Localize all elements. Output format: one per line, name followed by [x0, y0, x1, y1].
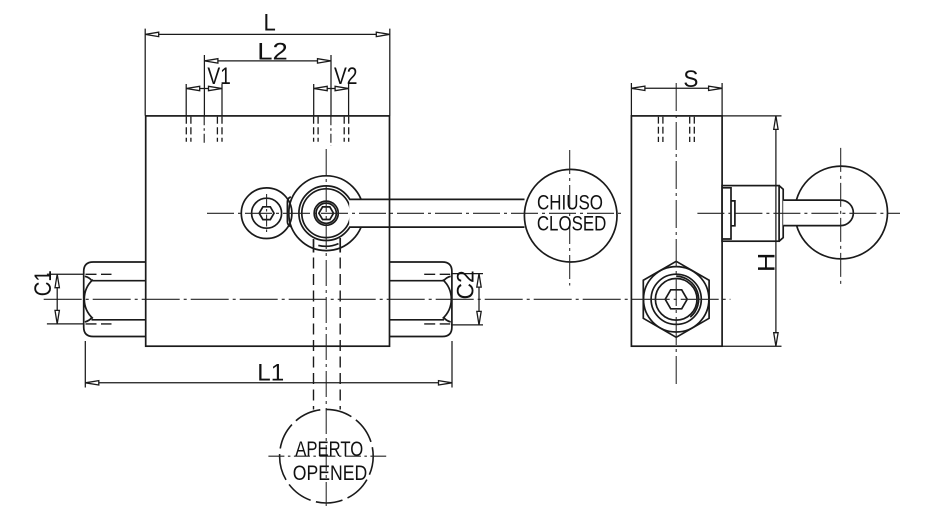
valve stem hub circles [287, 176, 363, 253]
ports horizontal centerline [44, 298, 731, 300]
right port hex point arcs [443, 280, 452, 319]
dimension S line [631, 87, 722, 89]
dimension L1 extension lines [85, 341, 452, 388]
side port hex nut [643, 261, 709, 337]
dimension L1 line [85, 382, 452, 384]
left port hex flats [92, 281, 146, 320]
dimension V2 line [314, 88, 349, 90]
dimension C1 line [56, 274, 58, 324]
dimension C1 extension lines [47, 274, 84, 324]
svg-text:CLOSED: CLOSED [537, 212, 607, 236]
handle hub side view [722, 186, 779, 242]
hub flange chamfered [779, 186, 783, 242]
lever stop slot lower arc [314, 238, 341, 253]
dimension V1 extension lines [186, 84, 222, 116]
svg-text:L1: L1 [257, 360, 284, 387]
arrow V2 left [314, 86, 328, 90]
valve body front rectangle [146, 116, 390, 346]
handle knob ball [795, 166, 888, 259]
right port hex flats [390, 281, 445, 320]
svg-text:L: L [263, 10, 275, 37]
arrow C1 top [55, 274, 59, 288]
arrow S left [631, 86, 645, 90]
svg-text:C1: C1 [30, 270, 57, 296]
left port outline [84, 262, 146, 337]
stop tab flat on left of hub [287, 197, 290, 227]
svg-text:C2: C2 [453, 270, 480, 299]
arrow L2 right [318, 59, 332, 63]
arrow V2 right [335, 86, 349, 90]
locking knob (left small) [241, 188, 292, 239]
arrow V1 left [186, 86, 200, 90]
dimension H extension lines [722, 116, 781, 346]
threaded hole V1 dashed lines [186, 117, 348, 142]
dimension H line [775, 116, 777, 346]
locking knob hex socket [259, 207, 274, 220]
right port outline [390, 262, 452, 337]
APERTO balloon (dashed circle) [280, 409, 374, 503]
port thread dashed lines [86, 274, 451, 324]
arrow V1 right [209, 86, 223, 90]
arrow C2 top [477, 274, 481, 288]
dimension L2 extension lines [204, 55, 331, 116]
side view threaded holes dashed [658, 117, 694, 142]
dimension C2 line [478, 274, 480, 325]
arrow L right [376, 32, 390, 36]
CHIUSO balloon vertical centerline [569, 150, 571, 286]
dimension L extension lines [145, 29, 390, 116]
knob vertical centerline [840, 148, 842, 284]
arrow S right [709, 86, 723, 90]
dimension V1 line [186, 88, 222, 90]
hole V1 centerline [203, 116, 205, 145]
dimension V2 extension lines [314, 84, 349, 116]
thread runout arc on nut [676, 276, 698, 317]
valve vertical centerline [325, 149, 327, 506]
arrow L1 left [85, 381, 99, 385]
svg-text:V1: V1 [207, 63, 231, 90]
hole V2 centerline [330, 116, 332, 146]
arrow L2 left [204, 59, 218, 63]
dimension L2 line [204, 60, 331, 62]
arrow H top [774, 116, 778, 129]
locking knob vertical centerline [266, 194, 268, 235]
APERTO balloon horizontal centerline [268, 455, 386, 457]
handle rod with rounded end [783, 200, 853, 226]
CHIUSO balloon [524, 169, 617, 262]
svg-text:OPENED: OPENED [293, 461, 368, 485]
dimension L line [145, 33, 390, 35]
svg-text:H: H [753, 253, 780, 273]
arrow C1 bottom [55, 310, 59, 324]
side view body rectangle [631, 116, 722, 346]
body right edge visible across lever bar [389, 199, 391, 229]
svg-text:S: S [683, 66, 698, 93]
stem circles and hex socket [314, 201, 338, 225]
phantom lever (opened position) dashed [314, 258, 341, 410]
arrow L1 right [439, 381, 453, 385]
arrow C2 bottom [477, 311, 481, 325]
arrowheads [55, 32, 778, 385]
left port hex point arcs [84, 280, 93, 319]
front stem horizontal centerline [207, 212, 625, 214]
side stem horizontal centerline [697, 212, 900, 214]
lever bar (closed position) [349, 199, 524, 229]
svg-text:V2: V2 [334, 63, 358, 90]
arrow L left [145, 32, 159, 36]
side view vertical centerline [675, 83, 677, 386]
arrow H bottom [774, 333, 778, 347]
dimension S extension lines [631, 83, 722, 116]
dimension C2 extension lines [451, 274, 483, 325]
hex socket of nut [665, 290, 687, 309]
threaded hole V2 dashed lines [314, 117, 349, 142]
svg-text:APERTO: APERTO [295, 437, 363, 461]
svg-text:L2: L2 [257, 39, 288, 66]
